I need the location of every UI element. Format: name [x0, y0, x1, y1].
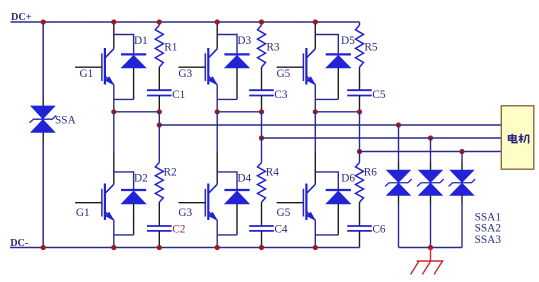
wire: bottom emitter-diode loop — [114, 234, 134, 236]
diode D3 (freewheel) — [224, 54, 249, 67]
resistor R3 — [258, 25, 266, 67]
wire: DC- negative bus rail — [10, 247, 360, 249]
TVS suppressor SSA2 — [417, 170, 444, 195]
pin: R4 to C4 — [261, 202, 263, 226]
wire: phase V to SSA2 — [430, 138, 432, 162]
label R2 — [164, 167, 178, 179]
capacitor C3 — [249, 90, 274, 95]
label R4 — [266, 167, 280, 179]
svg-text:C6: C6 — [372, 223, 386, 235]
label C2 — [172, 223, 186, 235]
pin: diode D1 anode lead — [133, 68, 135, 100]
junction: leg 3 top on DC+ rail — [313, 19, 318, 24]
pin: C6 to DC- rail — [359, 231, 361, 248]
label D3 — [237, 35, 251, 47]
wire: phase 1 midpoint rail — [114, 111, 160, 113]
label D6 — [341, 172, 355, 184]
wire: phase node down leg 2 — [216, 112, 218, 152]
capacitor C6 — [347, 226, 372, 231]
label G3 (bottom) — [178, 207, 192, 219]
TVS suppressor SSA (bidirectional) — [30, 106, 57, 132]
svg-text:C4: C4 — [274, 223, 288, 235]
pin: gate lead of G3 — [179, 66, 206, 68]
label G3 (top) — [178, 68, 192, 80]
svg-text:R2: R2 — [164, 167, 178, 179]
label R6 — [364, 167, 378, 179]
junction: SSA top on DC+ rail — [41, 19, 46, 24]
label C1 — [172, 89, 185, 101]
junction: leg 1 top on DC+ rail — [111, 19, 116, 24]
transistor G3 (IGBT, bottom) — [205, 184, 217, 221]
wire: collector branch to diode D1 cathode — [114, 35, 134, 54]
pin: gate lead of G3 (bottom) — [179, 202, 206, 204]
wire: phase tap to resistor R2 — [158, 125, 160, 163]
wire: phase V line to motor — [262, 137, 502, 139]
label R5 — [364, 41, 378, 53]
svg-text:C3: C3 — [274, 89, 288, 101]
junction: SSA bottom on DC- rail — [41, 245, 46, 250]
pin: C5 to phase node — [359, 96, 361, 112]
label SSA1 — [475, 211, 501, 223]
wire: DC+ rail to IGBT G1 collector (pin) — [113, 23, 115, 49]
junction: SSA3 tap on phase W line — [459, 149, 464, 154]
svg-text:G1: G1 — [76, 207, 90, 219]
junction: C2 on DC- rail — [157, 245, 162, 250]
svg-text:R1: R1 — [164, 41, 177, 53]
wire: leg 3 to DC- rail — [314, 235, 316, 248]
wire: emitter-diode loop bottom — [315, 98, 338, 100]
wire: DC+ rail to resistor R3 — [261, 22, 263, 25]
diode D2 (freewheel) — [121, 190, 146, 204]
wire: leg 1 to DC- rail — [113, 235, 115, 248]
svg-text:SSA: SSA — [55, 114, 77, 126]
wire: DC+ rail to IGBT G5 collector (pin) — [314, 23, 316, 49]
svg-text:D5: D5 — [341, 35, 355, 47]
wire: leg 2 to phase node — [216, 99, 218, 111]
svg-text:R5: R5 — [364, 41, 378, 53]
svg-text:D4: D4 — [237, 172, 251, 184]
diode D4 (freewheel) — [224, 190, 249, 204]
wire: leg 3 to phase node — [314, 99, 316, 111]
TVS suppressor SSA3 — [449, 170, 476, 195]
pin: C2 to DC- rail — [158, 231, 160, 248]
transistor G1 (IGBT, top) — [102, 48, 114, 85]
junction: phase 2 tap — [259, 135, 264, 140]
ground (chassis) — [411, 248, 444, 275]
label G5 (top) — [277, 68, 291, 80]
svg-text:SSA2: SSA2 — [475, 223, 502, 235]
wire: phase 3 midpoint rail — [315, 111, 359, 113]
wire: leg 2 to DC- rail — [216, 235, 218, 248]
svg-text:G5: G5 — [277, 68, 291, 80]
label D5 — [341, 35, 355, 47]
label G1 (bottom) — [76, 207, 90, 219]
resistor R4 — [258, 163, 266, 203]
junction: R1 on DC+ rail — [157, 19, 162, 24]
wire: phase node down leg 3 — [314, 112, 316, 152]
pin: C3 to phase node — [261, 96, 263, 112]
pin: SSA1 bottom lead — [398, 195, 400, 204]
label D1 — [134, 35, 148, 47]
wire: SSA1 to ground rail — [398, 204, 400, 248]
wire: emitter-diode loop bottom — [114, 98, 134, 100]
pin: C1 to phase node — [158, 96, 160, 112]
wire: DC+ rail to resistor R1 — [158, 22, 160, 25]
wire: bottom emitter of G3 down — [216, 220, 218, 235]
pin: SSA1 top lead — [398, 162, 400, 170]
wire: snubber column to phase tap 3 — [359, 112, 361, 152]
wire: DC+ rail to SSA — [42, 22, 44, 98]
svg-text:G1: G1 — [80, 68, 94, 80]
transistor G5 (IGBT, bottom) — [303, 184, 315, 221]
pin: diode D3 anode lead — [236, 68, 238, 100]
capacitor C4 — [249, 226, 274, 231]
svg-text:C2: C2 — [172, 223, 186, 235]
svg-text:G5: G5 — [277, 207, 291, 219]
resistor R1 — [155, 25, 163, 67]
wire: phase U to SSA1 — [398, 125, 400, 162]
wire: phase 2 midpoint rail — [217, 111, 261, 113]
junction: ground rail center — [428, 245, 433, 250]
pin: IGBT G5 collector (bottom) — [314, 152, 316, 184]
pin: C4 to DC- rail — [261, 231, 263, 248]
svg-text:C5: C5 — [372, 89, 386, 101]
label D4 — [237, 172, 251, 184]
junction: phase 1 tap — [157, 122, 162, 127]
svg-text:SSA1: SSA1 — [475, 211, 501, 223]
wire: phase U line to motor — [159, 124, 501, 126]
pin: diode D6 anode lead — [337, 204, 339, 235]
node DC+ — [11, 12, 32, 23]
wire: snubber column to phase tap 1 — [158, 112, 160, 125]
diode D1 (freewheel) — [121, 54, 146, 67]
TVS suppressor SSA1 — [385, 170, 412, 195]
capacitor C2 — [147, 226, 172, 231]
svg-text:DC-: DC- — [10, 238, 29, 249]
junction: midpoint at IGBT leg 1 — [111, 109, 116, 114]
label R1 — [164, 41, 177, 53]
wire: bottom collector branch to diode D6 — [315, 172, 338, 189]
wire: DC+ rail to IGBT G3 collector (pin) — [216, 23, 218, 49]
svg-text:D6: D6 — [341, 172, 355, 184]
svg-text:R6: R6 — [364, 167, 378, 179]
svg-text:R3: R3 — [266, 41, 280, 53]
wire: emitter of G5 down — [314, 84, 316, 99]
wire: bottom emitter of G5 down — [314, 220, 316, 235]
label SSA — [55, 114, 77, 126]
svg-text:R4: R4 — [266, 167, 280, 179]
svg-text:D3: D3 — [237, 35, 251, 47]
pin: diode D5 anode lead — [337, 68, 339, 100]
junction: R3 on DC+ rail — [259, 19, 264, 24]
wire: TVS common ground rail — [399, 247, 463, 249]
transistor G1 (IGBT, bottom) — [102, 184, 114, 221]
pin: R3 to C3 — [261, 67, 263, 90]
wire: phase W line to motor — [360, 151, 502, 153]
pin: gate lead of G1 (bottom) — [75, 202, 102, 204]
wire: leg 1 to phase node — [113, 99, 115, 111]
wire: bottom emitter of G1 down — [113, 220, 115, 235]
pin: R5 to C5 — [359, 67, 361, 90]
junction: SSA1 tap on phase U line — [396, 122, 401, 127]
label R3 — [266, 41, 280, 53]
junction: midpoint at IGBT leg 2 — [215, 109, 220, 114]
wire: collector branch to diode D3 cathode — [217, 35, 237, 54]
wire: SSA to DC- rail — [42, 141, 44, 248]
label SSA2 — [475, 223, 502, 235]
wire: phase tap to resistor R6 — [359, 152, 361, 163]
capacitor C5 — [347, 90, 372, 95]
diode D5 (freewheel) — [326, 54, 351, 67]
pin: gate lead of G1 — [75, 66, 102, 68]
wire: snubber column to phase tap 2 — [261, 112, 263, 138]
label: motor 电机 — [509, 134, 530, 143]
wire: bottom emitter-diode loop — [315, 234, 338, 236]
junction: midpoint at snubber 2 — [259, 109, 264, 114]
pin: SSA3 bottom lead — [461, 195, 463, 204]
motor block (electric machine) — [501, 106, 534, 169]
resistor R6 — [356, 163, 364, 203]
svg-text:SSA3: SSA3 — [475, 234, 502, 246]
wire: SSA2 to ground rail — [430, 204, 432, 248]
pin: R1 to C1 — [158, 67, 160, 90]
pin: SSA3 top lead — [461, 162, 463, 170]
wire: phase node down leg 1 — [113, 112, 115, 152]
pin: gate lead of G5 (bottom) — [277, 202, 304, 204]
label C4 — [274, 223, 288, 235]
label G5 (bottom) — [277, 207, 291, 219]
junction: leg 3 on DC- rail — [313, 245, 318, 250]
label C5 — [372, 89, 386, 101]
pin: R6 to C6 — [359, 202, 361, 226]
resistor R2 — [155, 163, 163, 203]
pin: diode D2 anode lead — [133, 204, 135, 235]
wire: bottom collector branch to diode D2 — [114, 172, 134, 189]
svg-text:DC+: DC+ — [11, 12, 32, 23]
wire: DC+ positive bus rail — [11, 21, 360, 23]
junction: leg 2 on DC- rail — [215, 245, 220, 250]
wire: emitter of G3 down — [216, 84, 218, 99]
label C3 — [274, 89, 288, 101]
transistor G5 (IGBT, top) — [303, 48, 315, 85]
junction: leg 2 top on DC+ rail — [215, 19, 220, 24]
resistor R5 — [356, 25, 364, 67]
junction: midpoint at snubber 1 — [157, 109, 162, 114]
label D2 — [134, 172, 148, 184]
wire: DC+ rail corner to resistor R5 — [359, 22, 361, 25]
junction: midpoint at snubber 3 — [357, 109, 362, 114]
pin: SSA2 top lead — [430, 162, 432, 170]
junction: midpoint at IGBT leg 3 — [313, 109, 318, 114]
wire: SSA3 to ground rail — [461, 204, 463, 248]
pin: IGBT G3 collector (bottom) — [216, 152, 218, 184]
transistor G3 (IGBT, top) — [205, 48, 217, 85]
capacitor C1 — [147, 90, 172, 95]
wire: bottom collector branch to diode D4 — [217, 172, 237, 189]
svg-text:G3: G3 — [178, 68, 192, 80]
svg-text:G3: G3 — [178, 207, 192, 219]
svg-text:C1: C1 — [172, 89, 185, 101]
pin: SSA top lead — [42, 98, 44, 106]
label SSA3 — [475, 234, 502, 246]
pin: R2 to C2 — [158, 202, 160, 226]
junction: SSA2 tap on phase V line — [428, 135, 433, 140]
label G1 (top) — [80, 68, 94, 80]
junction: phase 3 tap — [357, 149, 362, 154]
pin: SSA bottom lead — [42, 132, 44, 141]
pin: IGBT G1 collector (bottom) — [113, 152, 115, 184]
label C6 — [372, 223, 386, 235]
wire: emitter of G1 down — [113, 84, 115, 99]
pin: diode D4 anode lead — [236, 204, 238, 235]
junction: C4 on DC- rail — [259, 245, 264, 250]
svg-text:D2: D2 — [134, 172, 148, 184]
pin: SSA2 bottom lead — [430, 195, 432, 204]
wire: phase tap to resistor R4 — [261, 138, 263, 163]
wire: bottom emitter-diode loop — [217, 234, 237, 236]
node DC- — [10, 238, 29, 249]
junction: leg 1 on DC- rail — [111, 245, 116, 250]
diode D6 (freewheel) — [326, 190, 351, 204]
wire: phase W to SSA3 — [461, 152, 463, 163]
wire: collector branch to diode D5 cathode — [315, 35, 338, 54]
pin: gate lead of G5 — [277, 66, 304, 68]
svg-text:D1: D1 — [134, 35, 148, 47]
wire: emitter-diode loop bottom — [217, 98, 237, 100]
